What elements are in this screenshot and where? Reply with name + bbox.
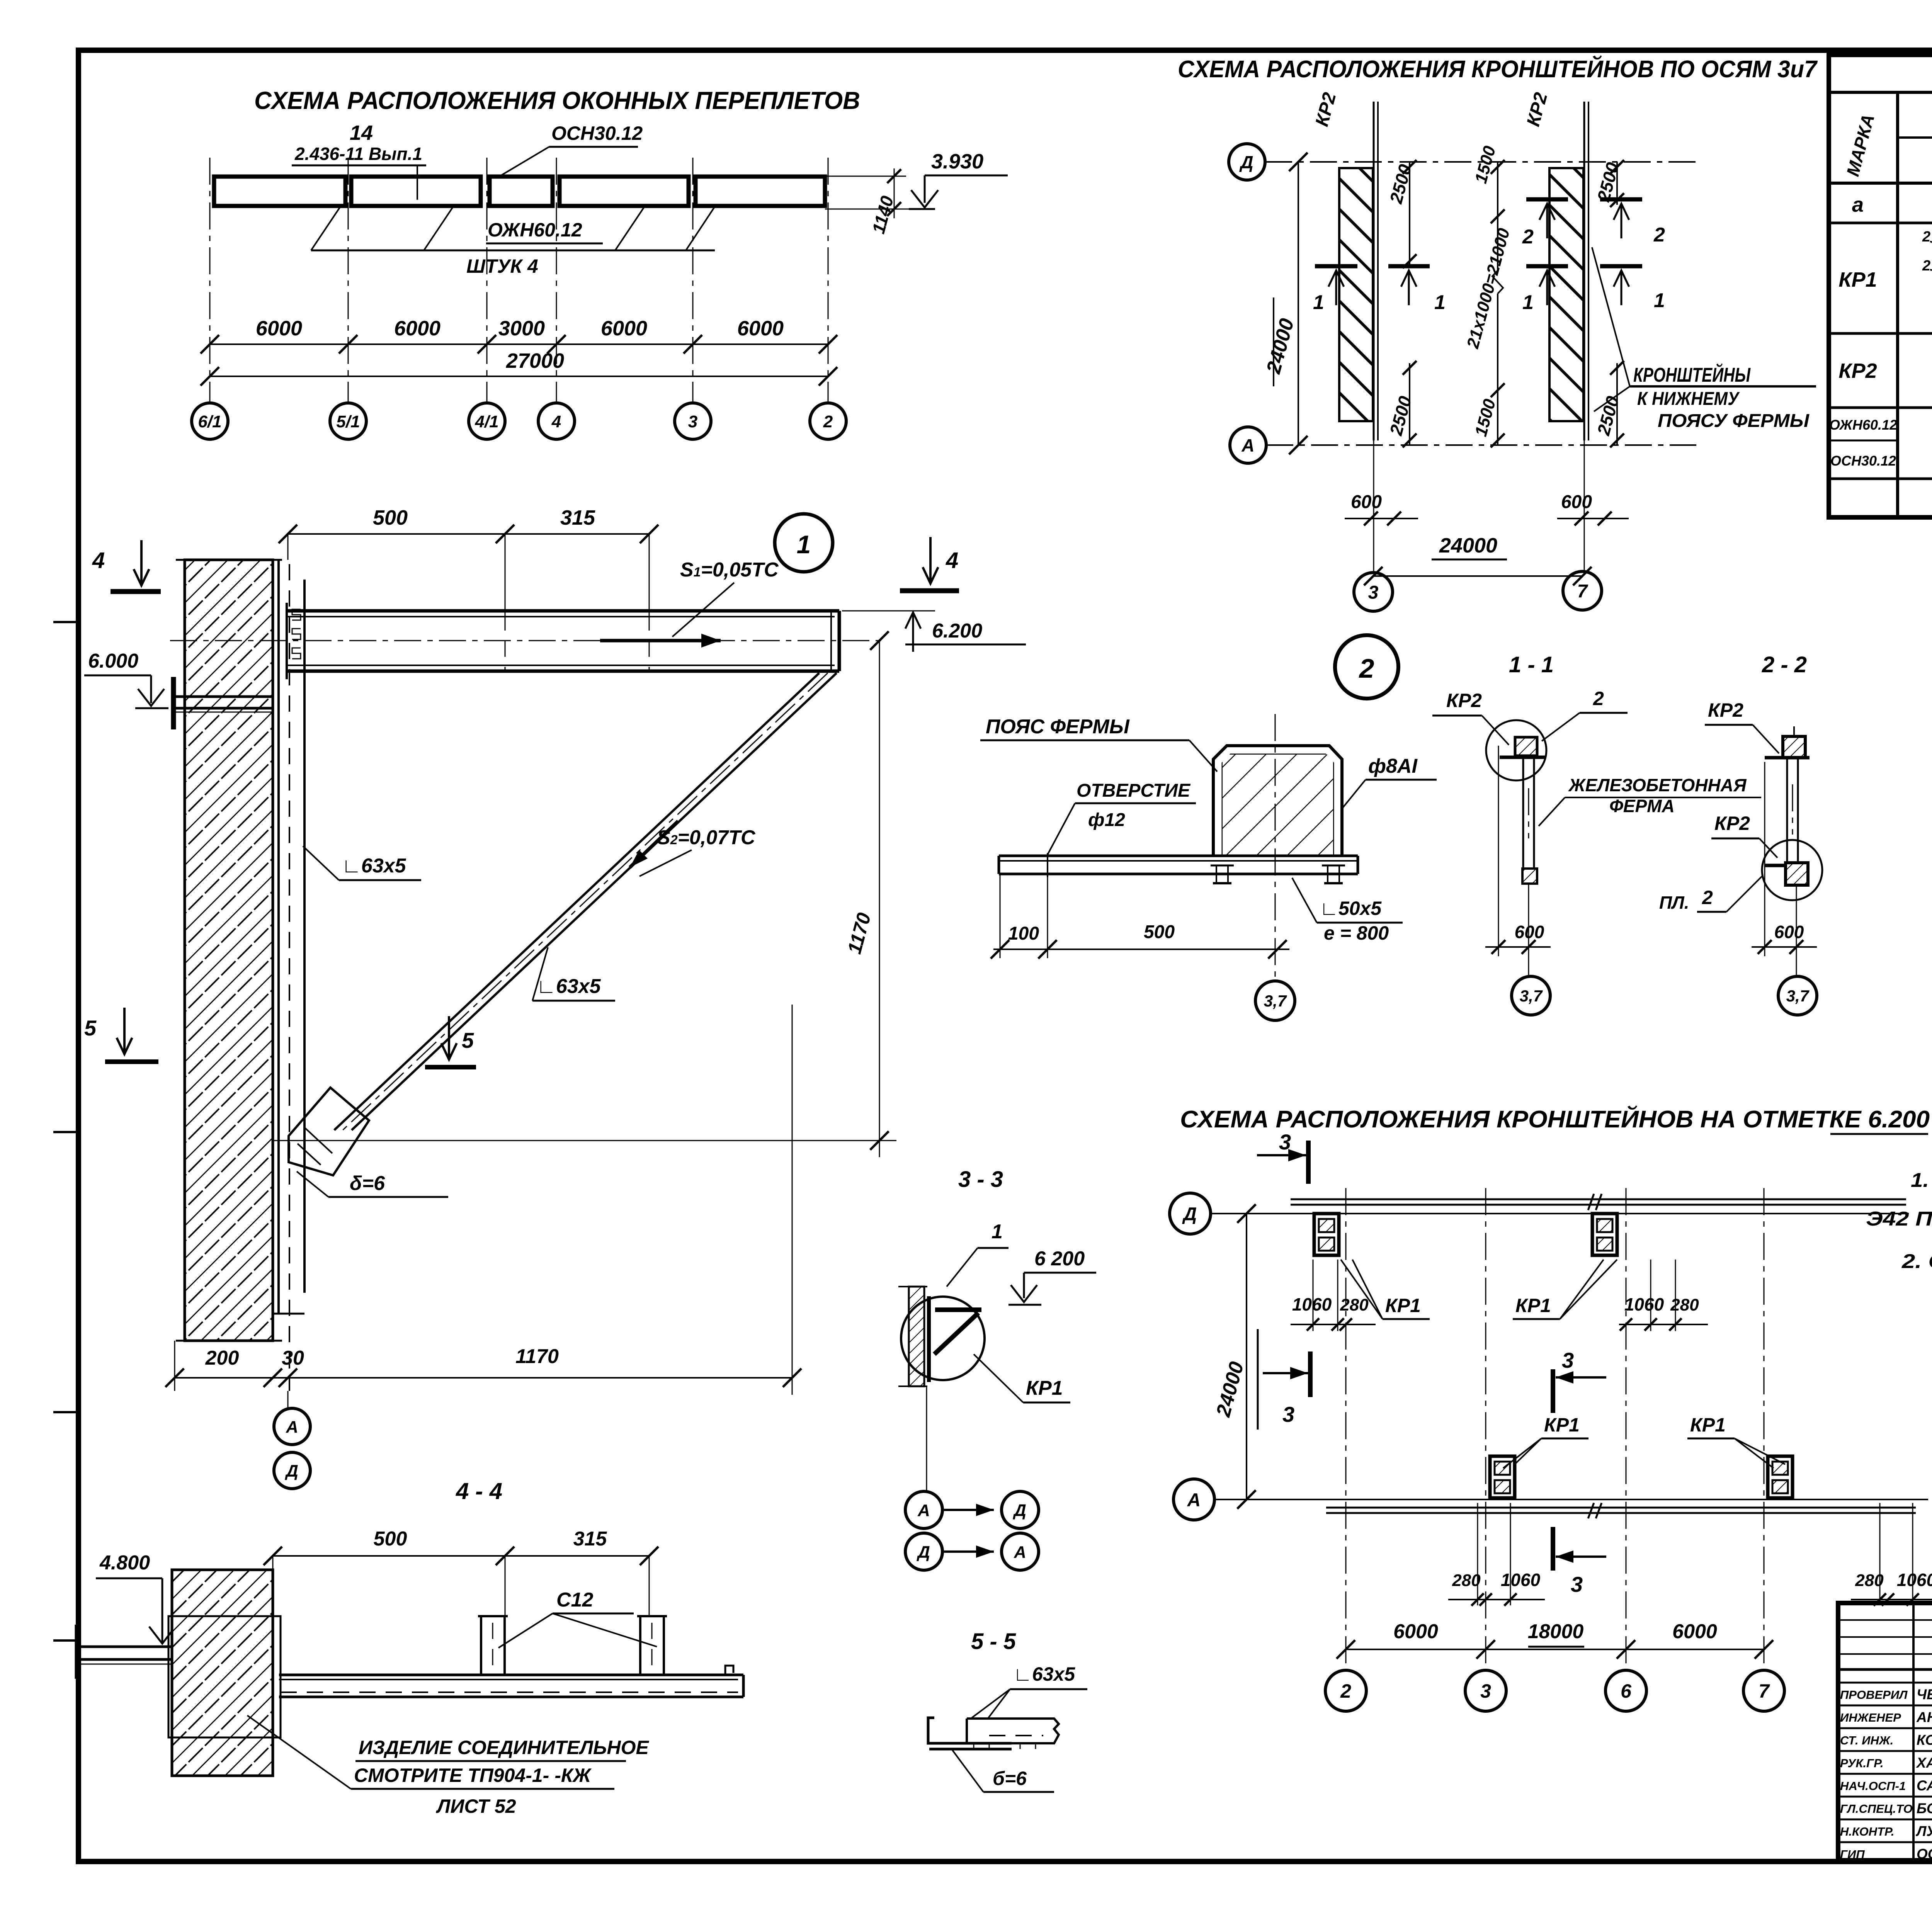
- svg-text:4 - 4: 4 - 4: [456, 1478, 502, 1504]
- svg-text:2: 2: [1702, 887, 1713, 908]
- svg-text:6000: 6000: [737, 317, 784, 340]
- vertical angle at wall face L63x5: [277, 560, 280, 1314]
- svg-text:ЧЕРНЯВСКАЯ: ЧЕРНЯВСКАЯ: [1917, 1686, 1932, 1702]
- svg-text:δ=6: δ=6: [350, 1172, 385, 1195]
- svg-text:500: 500: [1144, 922, 1175, 942]
- svg-text:ОСН30.12: ОСН30.12: [551, 122, 643, 144]
- detail bubble 2: [1335, 635, 1398, 699]
- svg-text:4/1: 4/1: [474, 412, 498, 431]
- plan axis Д: [1170, 1193, 1211, 1234]
- svg-text:СААКЬЯНЦ: СААКЬЯНЦ: [1917, 1778, 1932, 1793]
- svg-text:2 - 2: 2 - 2: [1762, 652, 1807, 677]
- svg-text:3.930: 3.930: [931, 150, 983, 173]
- vertical dim 1170 (right): [879, 641, 880, 1157]
- 1-1 top node square: [1515, 737, 1537, 756]
- svg-text:КР2: КР2: [1708, 699, 1743, 721]
- svg-text:КР2: КР2: [1838, 359, 1877, 382]
- svg-text:4: 4: [946, 548, 958, 573]
- svg-text:ШТУК 4: ШТУК 4: [466, 255, 538, 277]
- svg-text:ФЕРМА: ФЕРМА: [1609, 796, 1675, 816]
- truss belt square (hatched): [1223, 755, 1333, 856]
- svg-text:КР1: КР1: [1026, 1377, 1063, 1399]
- svg-text:3: 3: [688, 412, 697, 431]
- leader ОЖН60.12 with list: [311, 250, 715, 252]
- svg-text:АНДРЕЕВА: АНДРЕЕВА: [1916, 1709, 1932, 1725]
- plan vertical dim 24000: [1246, 1214, 1247, 1499]
- svg-text:КР1: КР1: [1838, 268, 1877, 291]
- 3-3 hatched wall strip: [909, 1287, 924, 1386]
- svg-text:5: 5: [462, 1028, 474, 1052]
- svg-text:1060: 1060: [1501, 1570, 1541, 1590]
- svg-text:ХАНИН: ХАНИН: [1916, 1755, 1932, 1771]
- svg-text:А: А: [1187, 1490, 1201, 1510]
- svg-text:1060: 1060: [1292, 1294, 1332, 1314]
- window frame rectangles OCH/ОЖН: [214, 177, 345, 206]
- svg-text:200: 200: [205, 1347, 239, 1369]
- svg-text:1 - 1: 1 - 1: [1509, 652, 1554, 677]
- svg-text:ПОЯСУ ФЕРМЫ: ПОЯСУ ФЕРМЫ: [1658, 411, 1810, 431]
- plan section mark 3 (left mid): [1308, 1351, 1313, 1397]
- svg-text:2: 2: [1340, 1680, 1351, 1702]
- svg-text:КР1: КР1: [1544, 1414, 1580, 1436]
- svg-text:ИНЖЕНЕР: ИНЖЕНЕР: [1840, 1711, 1901, 1724]
- 4-4 beam plan: [279, 1674, 743, 1676]
- svg-text:24000: 24000: [1439, 534, 1497, 557]
- svg-text:3: 3: [1562, 1348, 1574, 1372]
- bracket marks row 1 (axis3): [1315, 264, 1357, 269]
- svg-text:600: 600: [1561, 492, 1592, 512]
- svg-text:ОЖН60.12: ОЖН60.12: [1829, 417, 1897, 433]
- svg-text:∟63x5: ∟63x5: [1013, 1663, 1075, 1685]
- svg-text:НАЧ.ОСП-1: НАЧ.ОСП-1: [1840, 1779, 1906, 1793]
- svg-text:7: 7: [1577, 581, 1588, 602]
- svg-text:280: 280: [1670, 1295, 1699, 1314]
- KP1 symbols bottom (axes 3 and 7): [1490, 1456, 1515, 1498]
- svg-text:Д: Д: [1239, 152, 1253, 172]
- svg-text:6000: 6000: [1393, 1620, 1438, 1643]
- svg-text:1: 1: [1654, 289, 1665, 312]
- svg-text:ОТВЕРСТИЕ: ОТВЕРСТИЕ: [1077, 780, 1191, 801]
- svg-text:1. КОНСТРУКЦИИ СВАРНЫЕ. СВАРКУ: 1. КОНСТРУКЦИИ СВАРНЫЕ. СВАРКУ ПРОИЗВОДИ…: [1911, 1169, 1932, 1192]
- detail bubble 1: [775, 514, 833, 572]
- plan wall double lines top: [1291, 1204, 1906, 1206]
- extension line beam end down: [792, 1005, 793, 1395]
- svg-text:3000: 3000: [498, 317, 545, 340]
- signature table left part: [1838, 1619, 1932, 1621]
- 3-3 vertical plate: [927, 1296, 931, 1382]
- 2-2 rod: [1786, 758, 1788, 865]
- svg-text:280: 280: [1452, 1571, 1481, 1590]
- axis bubbles 3 and 7: [1354, 573, 1393, 611]
- svg-text:6000: 6000: [601, 317, 647, 340]
- svg-text:КР1: КР1: [1690, 1414, 1726, 1436]
- svg-text:А: А: [1014, 1543, 1026, 1562]
- S1 force arrow: [600, 639, 721, 643]
- svg-text:3: 3: [1282, 1402, 1294, 1426]
- svg-text:ПЛ.: ПЛ.: [1659, 892, 1689, 913]
- svg-text:СТ. ИНЖ.: СТ. ИНЖ.: [1840, 1734, 1893, 1747]
- svg-text:2.436-11 Вып.1: 2.436-11 Вып.1: [294, 144, 422, 164]
- plan breaks in wall lines: [1588, 1194, 1594, 1210]
- plan bottom dim line 6000/18000/6000: [1346, 1649, 1764, 1650]
- svg-text:6000: 6000: [394, 317, 440, 340]
- fold ticks left margin: [53, 621, 79, 623]
- KP1 symbols top (axes 2 and 6): [1314, 1214, 1339, 1255]
- svg-text:315: 315: [573, 1528, 607, 1550]
- 4-4 wall hatched: [172, 1570, 273, 1776]
- svg-text:б=6: б=6: [993, 1768, 1027, 1789]
- svg-text:500: 500: [374, 1528, 407, 1550]
- svg-text:3: 3: [1480, 1680, 1491, 1702]
- svg-text:К НИЖНЕМУ: К НИЖНЕМУ: [1637, 389, 1740, 409]
- svg-text:4: 4: [92, 548, 105, 573]
- vertical dim 24000: [1298, 162, 1299, 445]
- upper console I-beam, elev 6.000: [171, 677, 176, 729]
- axis D bubble and line: [1229, 144, 1265, 180]
- svg-text:18000: 18000: [1528, 1620, 1584, 1643]
- svg-text:Н.КОНТР.: Н.КОНТР.: [1840, 1825, 1895, 1838]
- svg-text:1060: 1060: [1624, 1294, 1664, 1314]
- svg-text:КР2: КР2: [1714, 813, 1750, 834]
- dimension row 6000/6000/3000/6000/6000: [210, 343, 828, 345]
- svg-text:600: 600: [1351, 492, 1382, 512]
- 5-5 horizontal plate: [929, 1742, 1012, 1745]
- svg-text:30: 30: [282, 1347, 304, 1369]
- strip 7 vertical angle lines: [1583, 102, 1585, 440]
- bracket marks rows (axis7): [1526, 197, 1568, 202]
- axis lines (dash-dot verticals): [209, 158, 211, 403]
- svg-text:КОРОТЕНКО: КОРОТЕНКО: [1917, 1732, 1932, 1748]
- svg-text:СХЕМА РАСПОЛОЖЕНИЯ КРОНШТЕЙН: СХЕМА РАСПОЛОЖЕНИЯ КРОНШТЕЙНОВ ПО ОСЯМ 3…: [1178, 55, 1818, 83]
- plan vertical axes 2 3 6 7: [1345, 1188, 1347, 1669]
- svg-text:ОСН30.12: ОСН30.12: [1830, 453, 1896, 469]
- axis A bubble and line: [1230, 427, 1266, 463]
- wall (hatched): [185, 560, 273, 1341]
- svg-text:6000: 6000: [1672, 1620, 1717, 1643]
- dimension 27000: [210, 376, 828, 377]
- svg-text:ГИП: ГИП: [1840, 1848, 1865, 1861]
- plan section mark 3 (bottom): [1551, 1527, 1555, 1571]
- 1-1 dim 600: [1498, 746, 1499, 956]
- svg-text:1170: 1170: [515, 1345, 559, 1368]
- svg-text:Д: Д: [916, 1543, 930, 1562]
- svg-text:ГЛ.СПЕЦ.ТО: ГЛ.СПЕЦ.ТО: [1840, 1802, 1913, 1816]
- ф8АI U-bar over truss belt: [1213, 746, 1342, 856]
- svg-text:1: 1: [1522, 291, 1534, 314]
- centreline to bubble 3,7: [1275, 714, 1276, 981]
- svg-text:4: 4: [551, 412, 561, 431]
- svg-text:1: 1: [797, 530, 811, 559]
- gusset plate δ=6: [289, 1088, 369, 1175]
- svg-text:600: 600: [1774, 922, 1804, 942]
- plan wall double lines bottom: [1326, 1507, 1916, 1509]
- svg-text:7: 7: [1759, 1680, 1770, 1702]
- plan axis bubbles 2 3 6 7: [1325, 1670, 1366, 1711]
- svg-text:ф12: ф12: [1088, 810, 1125, 830]
- svg-text:С12: С12: [556, 1589, 593, 1611]
- svg-text:27000: 27000: [506, 349, 564, 372]
- svg-text:ЛУЦЕНКО: ЛУЦЕНКО: [1915, 1823, 1932, 1839]
- svg-text:3,7: 3,7: [1264, 992, 1287, 1010]
- svg-text:1: 1: [992, 1221, 1003, 1243]
- elevation 6.200 (right of beam): [842, 610, 935, 612]
- svg-text:СХЕМА РАСПОЛОЖЕНИЯ КРОНШТЕЙН: СХЕМА РАСПОЛОЖЕНИЯ КРОНШТЕЙНОВ НА ОТМЕТК…: [1180, 1105, 1930, 1133]
- svg-text:2: 2: [1653, 224, 1665, 246]
- svg-text:ЖЕЛЕЗОБЕТОННАЯ: ЖЕЛЕЗОБЕТОННАЯ: [1568, 775, 1747, 795]
- svg-text:СМОТРИТЕ ТП904-1- -КЖ: СМОТРИТЕ ТП904-1- -КЖ: [354, 1765, 592, 1786]
- 3-3 detail circle: [901, 1297, 985, 1380]
- detail2 dims 100/500: [1000, 874, 1001, 958]
- svg-text:6/1: 6/1: [198, 412, 221, 431]
- svg-text:КР2: КР2: [1446, 690, 1482, 711]
- svg-text:1060: 1060: [1897, 1570, 1932, 1590]
- 1-1 bottom square: [1522, 869, 1537, 884]
- 2-2 bottom node circle: [1762, 840, 1822, 900]
- svg-text:280: 280: [1340, 1295, 1369, 1314]
- svg-text:А: А: [286, 1418, 298, 1436]
- svg-text:∟63x5: ∟63x5: [342, 855, 406, 877]
- beam centreline: [170, 640, 881, 641]
- 2500 corner dims: [1409, 162, 1410, 266]
- svg-text:Э42 ПО ГОСТ 9467- 75.: Э42 ПО ГОСТ 9467- 75.: [1866, 1208, 1932, 1230]
- svg-text:3,7: 3,7: [1786, 987, 1810, 1005]
- 5-5 vertical angle: [928, 1718, 962, 1743]
- 1-1 hanger rod: [1522, 756, 1524, 869]
- svg-text:1: 1: [1434, 291, 1446, 314]
- svg-text:ф8АІ: ф8АІ: [1368, 755, 1418, 777]
- 2-2 top node: [1783, 736, 1805, 758]
- reference line at bracket bottom: [273, 1140, 896, 1141]
- cantilever beam (channel): [287, 609, 839, 613]
- svg-text:5: 5: [84, 1016, 97, 1040]
- svg-text:1: 1: [1313, 291, 1324, 314]
- axis bubbles 6/1 5/1 4/1 4 3 2: [192, 403, 228, 439]
- svg-text:Д: Д: [284, 1462, 298, 1481]
- svg-text:Д: Д: [1182, 1204, 1197, 1224]
- svg-text:600: 600: [1515, 922, 1544, 942]
- svg-text:6 200: 6 200: [1034, 1248, 1085, 1270]
- axis bubbles А / Д under detail 1: [287, 1391, 289, 1408]
- svg-text:3,7: 3,7: [1520, 987, 1543, 1005]
- bottom dims 200 / 30 / 1170: [174, 1341, 175, 1391]
- wall top/bottom break: [176, 559, 282, 561]
- svg-text:e = 800: e = 800: [1324, 922, 1389, 944]
- plan axis А: [1173, 1479, 1214, 1520]
- top dim 500 / 315: [288, 533, 649, 535]
- svg-text:ЛИСТ 52: ЛИСТ 52: [436, 1795, 516, 1817]
- hatched column strip axis 3: [1339, 168, 1373, 421]
- svg-text:БОЯРЧЕНКО: БОЯРЧЕНКО: [1917, 1800, 1932, 1816]
- svg-text:5 - 5: 5 - 5: [971, 1629, 1016, 1654]
- svg-text:3: 3: [1368, 582, 1379, 603]
- svg-text:∟50x5: ∟50x5: [1320, 898, 1382, 919]
- 2-2 bottom node square: [1786, 863, 1808, 885]
- svg-text:2: 2: [1359, 653, 1374, 683]
- svg-text:6: 6: [1621, 1680, 1632, 1702]
- 4-4 channel stubs C12: [480, 1616, 482, 1675]
- svg-text:РУК.ГР.: РУК.ГР.: [1840, 1756, 1884, 1770]
- svg-text:ОЖН60.12: ОЖН60.12: [488, 219, 582, 241]
- svg-text:Д: Д: [1012, 1501, 1026, 1520]
- svg-text:6.000: 6.000: [88, 650, 138, 672]
- hatched column strip axis 7: [1549, 168, 1583, 421]
- 3-3 bracket bars: [935, 1307, 981, 1312]
- svg-text:3: 3: [1571, 1572, 1583, 1596]
- svg-text:14: 14: [350, 121, 373, 144]
- svg-text:ПОЯС ФЕРМЫ: ПОЯС ФЕРМЫ: [986, 716, 1130, 738]
- svg-text:ИЗДЕЛИЕ СОЕДИНИТЕЛЬНОЕ: ИЗДЕЛИЕ СОЕДИНИТЕЛЬНОЕ: [359, 1737, 649, 1758]
- svg-text:ПРОВЕРИЛ: ПРОВЕРИЛ: [1840, 1688, 1908, 1702]
- 2-2 dim 600: [1764, 762, 1765, 956]
- svg-text:6000: 6000: [256, 317, 302, 340]
- strip 3 vertical angle lines: [1373, 102, 1375, 440]
- svg-text:2. СВАРКА РУЧНАЯ ДУГОВАЯ hш: 2. СВАРКА РУЧНАЯ ДУГОВАЯ hш = 6ММ.: [1901, 1250, 1932, 1273]
- 5-5 weld ticks: [973, 1743, 975, 1749]
- svg-text:2: 2: [1922, 229, 1930, 245]
- svg-text:4.800: 4.800: [99, 1552, 150, 1574]
- lower console I-beam, elev 4.800: [75, 1625, 80, 1679]
- svg-text:2: 2: [1922, 258, 1930, 274]
- svg-text:500: 500: [373, 506, 408, 529]
- svg-text:100: 100: [1008, 923, 1039, 944]
- svg-text:315: 315: [560, 506, 595, 529]
- svg-text:КР1: КР1: [1385, 1295, 1421, 1316]
- 1500 / 21x1000=21000 dim line: [1497, 162, 1498, 270]
- bolt marks: [1211, 865, 1234, 867]
- belt square hatch centrelines: [1223, 855, 1333, 857]
- 3-3 direction bubbles А->Д and Д->А: [905, 1491, 942, 1528]
- svg-text:а: а: [1852, 193, 1864, 216]
- hole line: [1047, 853, 1048, 877]
- svg-text:КР1: КР1: [1515, 1295, 1551, 1316]
- title block outer: [1838, 1603, 1932, 1860]
- svg-text:3 - 3: 3 - 3: [958, 1167, 1003, 1192]
- svg-text:А: А: [1241, 435, 1254, 456]
- svg-text:2: 2: [1593, 688, 1604, 709]
- svg-text:КРОНШТЕЙНЫ: КРОНШТЕЙНЫ: [1633, 363, 1751, 386]
- 3-3 axis continuation: [926, 1387, 927, 1492]
- svg-text:А: А: [917, 1501, 930, 1520]
- 4-4 dashed connecting plate: [168, 1616, 281, 1737]
- diagonal strut L63x5: [352, 673, 837, 1130]
- svg-text:2: 2: [1522, 226, 1534, 248]
- table Ведомость элементов: [1829, 55, 1932, 517]
- svg-text:5/1: 5/1: [336, 412, 360, 431]
- svg-text:ОСТАШЕВСКИЙ: ОСТАШЕВСКИЙ: [1917, 1846, 1932, 1862]
- svg-text:6.200: 6.200: [932, 620, 982, 642]
- S2 force arrow: [630, 821, 678, 867]
- 1-1 node circle: [1486, 720, 1546, 780]
- 4-4 dims 500/315: [273, 1555, 649, 1557]
- svg-text:2: 2: [823, 412, 833, 431]
- svg-text:∟63x5: ∟63x5: [536, 975, 601, 998]
- base plate L50x5: [999, 855, 1358, 857]
- svg-text:СХЕМА РАСПОЛОЖЕНИЯ ОКОННЫХ: СХЕМА РАСПОЛОЖЕНИЯ ОКОННЫХ ПЕРЕПЛЕТОВ: [254, 87, 860, 114]
- 5-5 beam with break: [967, 1719, 1059, 1743]
- weld marks at beam root: [292, 609, 301, 620]
